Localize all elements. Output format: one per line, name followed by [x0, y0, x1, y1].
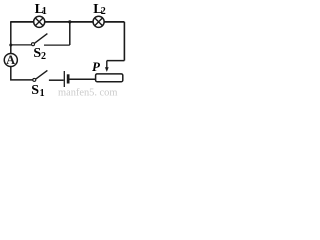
wire rheostat slider to right vertical [107, 60, 125, 62]
label S1 [31, 83, 44, 99]
wire S2 branch right segment [44, 44, 70, 46]
lamp L2 [93, 16, 104, 27]
wire middle vertical (node between L1 and L2 down to S2 branch) [69, 22, 71, 45]
label L1 [35, 2, 47, 17]
ammeter A [4, 53, 17, 67]
rheostat slider arrow [105, 61, 109, 72]
svg-text:1: 1 [40, 88, 45, 97]
svg-text:2: 2 [101, 6, 106, 17]
wire right vertical [123, 22, 125, 61]
rheostat P (box) [96, 74, 123, 82]
svg-text:manfen5. com: manfen5. com [58, 87, 117, 97]
wire S1 to battery [49, 79, 64, 81]
wire left vertical [10, 22, 12, 53]
node junction dot on top wire [68, 20, 71, 23]
svg-text:P: P [92, 59, 101, 74]
wire top horizontal [10, 21, 124, 23]
svg-text:2: 2 [41, 51, 46, 62]
switch S1 [33, 70, 48, 81]
svg-text:1: 1 [42, 6, 47, 17]
wire S2 branch left segment [11, 44, 32, 46]
svg-text:S: S [31, 83, 39, 97]
node junction dot on left vertical [9, 44, 12, 47]
battery cell [64, 71, 69, 87]
wire ammeter to bottom [11, 67, 33, 80]
svg-text:A: A [6, 53, 15, 67]
lamp L1 [34, 16, 45, 27]
label L2 [93, 2, 106, 17]
switch S2 [32, 34, 48, 46]
label S2 [33, 46, 46, 62]
wire battery to rheostat [69, 78, 95, 80]
